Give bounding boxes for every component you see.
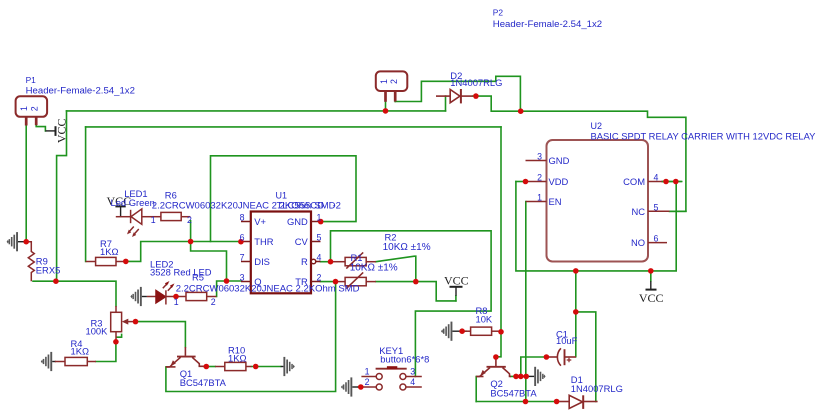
svg-text:1N4007RLG: 1N4007RLG [450,77,502,88]
svg-text:R: R [301,256,308,267]
svg-text:R1: R1 [351,252,363,263]
svg-text:2: 2 [537,173,542,183]
svg-text:2: 2 [365,377,370,387]
svg-text:5: 5 [654,202,659,212]
svg-text:1KΩ: 1KΩ [228,352,246,363]
svg-text:Header-Female-2.54_1x2: Header-Female-2.54_1x2 [26,86,135,97]
svg-text:10K: 10K [476,314,493,325]
svg-text:CV: CV [295,236,309,247]
svg-text:EN: EN [549,196,562,207]
svg-text:10KΩ ±1%: 10KΩ ±1% [350,263,398,274]
svg-text:3: 3 [537,152,542,162]
svg-text:6: 6 [240,233,245,243]
svg-text:VCC: VCC [639,291,664,305]
svg-text:U2: U2 [591,121,603,131]
svg-text:V+: V+ [254,216,266,227]
svg-text:GND: GND [287,216,308,227]
svg-text:2.2CRCW06032K20JNEAC 2.2KOhm S: 2.2CRCW06032K20JNEAC 2.2KOhm SMD [176,283,360,294]
svg-text:6: 6 [654,234,659,244]
svg-text:1: 1 [537,193,542,203]
svg-text:1: 1 [365,367,370,377]
svg-text:P2: P2 [493,8,504,18]
svg-text:10uF: 10uF [556,335,578,346]
svg-text:1: 1 [379,79,389,84]
svg-text:2: 2 [389,79,399,84]
svg-text:COM: COM [623,176,645,187]
svg-text:VCC: VCC [55,118,69,143]
svg-text:button6*6*8: button6*6*8 [380,354,429,365]
svg-text:2: 2 [29,106,39,111]
svg-text:TLC555CD: TLC555CD [277,200,325,211]
svg-text:Led Green: Led Green [111,197,155,208]
svg-text:1: 1 [151,215,156,225]
svg-text:4: 4 [654,173,659,183]
svg-text:3: 3 [240,273,245,283]
svg-text:NO: NO [631,237,645,248]
svg-text:DIS: DIS [254,256,270,267]
svg-text:BC547BTA: BC547BTA [490,388,537,399]
svg-text:BC547BTA: BC547BTA [180,377,227,388]
svg-text:-2: -2 [333,200,341,211]
svg-text:2: 2 [211,297,216,307]
svg-text:P1: P1 [26,75,37,85]
svg-text:4: 4 [410,377,415,387]
svg-text:8: 8 [240,213,245,223]
svg-text:1KΩ: 1KΩ [71,346,89,357]
svg-text:U1: U1 [276,190,288,200]
svg-text:1N4007RLG: 1N4007RLG [571,383,623,394]
svg-text:1: 1 [174,297,179,307]
svg-text:100K: 100K [86,326,109,337]
svg-text:R5: R5 [192,271,204,282]
svg-text:Header-Female-2.54_1x2: Header-Female-2.54_1x2 [493,19,602,30]
svg-text:NC: NC [631,206,645,217]
svg-text:GND: GND [549,155,570,166]
svg-text:1KΩ: 1KΩ [100,246,118,257]
svg-text:1: 1 [19,106,29,111]
svg-text:VCC: VCC [444,274,469,288]
svg-text:ERX5: ERX5 [36,265,61,276]
svg-text:2: 2 [187,215,192,225]
svg-text:5: 5 [317,233,322,243]
svg-text:4: 4 [317,253,322,263]
svg-text:VDD: VDD [549,176,569,187]
svg-text:R6: R6 [165,190,177,201]
svg-text:10KΩ ±1%: 10KΩ ±1% [383,242,431,253]
svg-text:3: 3 [410,367,415,377]
svg-text:Q: Q [254,276,261,287]
svg-text:BASIC SPDT RELAY CARRIER WITH: BASIC SPDT RELAY CARRIER WITH 12VDC RELA… [591,131,817,142]
svg-text:TR: TR [295,276,308,287]
svg-text:1: 1 [317,213,322,223]
svg-text:2: 2 [317,273,322,283]
svg-text:THR: THR [254,236,273,247]
svg-text:7: 7 [240,253,245,263]
